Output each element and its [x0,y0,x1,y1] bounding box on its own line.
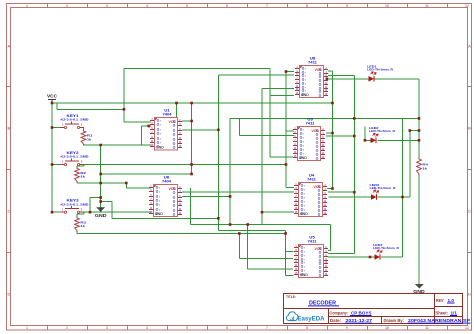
svg-text:1k: 1k [422,166,427,170]
svg-text:1k: 1k [80,175,85,179]
svg-text:2: 2 [66,4,68,8]
svg-text:10: 10 [385,326,389,330]
svg-text:9: 9 [346,326,348,330]
svg-text:Date:: Date: [330,318,342,323]
svg-text:8: 8 [306,326,308,330]
svg-text:LED-TH-5mm_R: LED-TH-5mm_R [367,68,394,72]
svg-text:5: 5 [186,326,188,330]
svg-text:K2-3.6-6.1_SMD: K2-3.6-6.1_SMD [61,202,90,206]
svg-text:1: 1 [26,326,28,330]
svg-text:Sheet:: Sheet: [436,310,449,315]
svg-text:7: 7 [266,4,268,8]
svg-text:6: 6 [226,326,228,330]
svg-text:10: 10 [385,4,389,8]
svg-text:7404: 7404 [162,179,171,183]
svg-text:VCC: VCC [315,247,323,251]
svg-text:D: D [8,292,11,297]
svg-text:D: D [468,292,471,297]
svg-text:6: 6 [226,4,228,8]
svg-text:VCC: VCC [314,185,322,189]
svg-text:C: C [468,209,471,214]
svg-text:12: 12 [465,4,469,8]
svg-text:7411: 7411 [307,177,316,181]
svg-text:1k: 1k [87,137,92,141]
svg-text:CP BOYS: CP BOYS [351,310,372,315]
svg-text:VCC: VCC [47,94,57,99]
svg-text:LED-TH-5mm_R: LED-TH-5mm_R [369,129,396,133]
svg-text:VCC: VCC [169,120,177,124]
svg-text:8: 8 [306,4,308,8]
svg-text:1: 1 [26,4,28,8]
svg-text:1/1: 1/1 [451,310,458,315]
svg-text:TITLE:: TITLE: [286,294,296,299]
svg-text:11: 11 [425,4,429,8]
svg-text:7411: 7411 [308,60,317,64]
svg-text:K2-3.6-6.1_SMD: K2-3.6-6.1_SMD [61,155,90,159]
svg-text:1.0: 1.0 [448,298,455,303]
svg-text:Drawn By:: Drawn By: [384,318,405,323]
svg-text:VCC: VCC [169,187,177,191]
svg-text:7404: 7404 [163,112,172,116]
svg-text:12: 12 [465,326,469,330]
svg-text:7411: 7411 [308,239,317,243]
svg-text:B: B [468,126,471,131]
svg-text:LED-TH-5mm_R: LED-TH-5mm_R [370,186,397,190]
svg-text:REV:: REV: [436,298,445,303]
svg-text:2: 2 [66,326,68,330]
svg-text:C: C [8,209,11,214]
svg-text:3: 3 [106,4,108,8]
svg-text:1k: 1k [80,224,85,228]
svg-text:GND: GND [95,213,107,218]
svg-text:4: 4 [146,326,148,330]
svg-text:11: 11 [425,326,429,330]
svg-text:5: 5 [186,4,188,8]
svg-text:Company:: Company: [330,310,349,315]
svg-text:20F043 NARENDRAN SP: 20F043 NARENDRAN SP [408,318,470,323]
svg-text:VCC: VCC [312,129,320,133]
svg-text:LED-TH-5mm_R: LED-TH-5mm_R [373,246,400,250]
svg-text:4: 4 [146,4,148,8]
svg-text:A: A [468,44,471,49]
svg-text:A: A [8,44,11,49]
svg-text:VCC: VCC [315,68,323,72]
svg-text:7411: 7411 [306,121,315,125]
svg-text:B: B [8,126,11,131]
svg-text:3: 3 [106,326,108,330]
svg-text:K2-3.6-6.1_SMD: K2-3.6-6.1_SMD [61,118,90,122]
svg-text:2021-12-27: 2021-12-27 [346,318,373,323]
svg-text:7: 7 [266,326,268,330]
svg-text:EasyEDA: EasyEDA [298,315,325,322]
svg-text:9: 9 [346,4,348,8]
